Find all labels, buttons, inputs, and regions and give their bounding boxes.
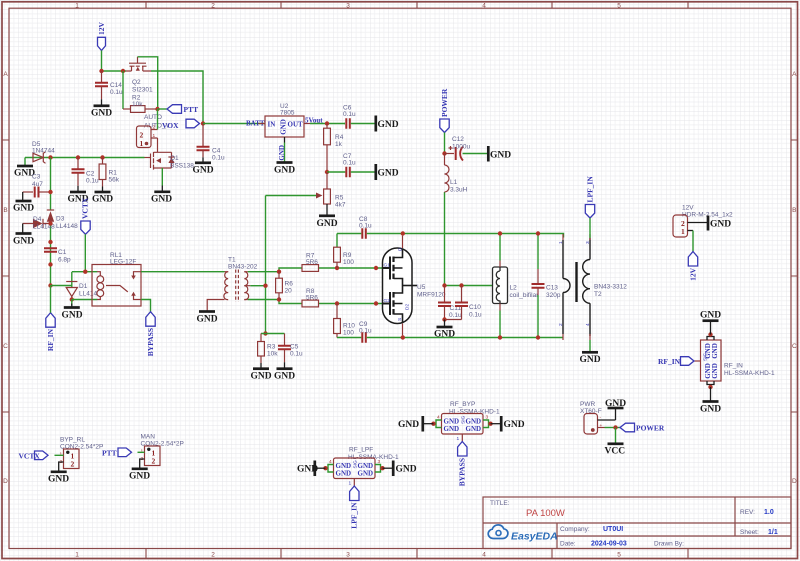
- svg-text:5R6: 5R6: [306, 259, 318, 266]
- ground under C11/C10: [434, 320, 455, 340]
- svg-text:RF_BYP: RF_BYP: [450, 401, 475, 408]
- svg-text:GND: GND: [317, 219, 338, 229]
- ground right of RF_BYP (rotated): [491, 416, 525, 432]
- U2 GND pin lead: [278, 137, 286, 162]
- junction G1 pin: [374, 266, 378, 270]
- svg-text:D1: D1: [79, 283, 88, 290]
- svg-text:GND: GND: [444, 425, 460, 433]
- IC U2 7805 regulator: [259, 103, 311, 137]
- connector RF_BYP HL-SSMA-KHD-1: [436, 401, 500, 442]
- svg-text:B: B: [792, 207, 796, 214]
- svg-text:0.1u: 0.1u: [449, 312, 462, 319]
- svg-text:GND: GND: [274, 166, 295, 176]
- inductor L1 3.3uH: [445, 154, 468, 194]
- potentiometer R5 4k7: [266, 172, 346, 209]
- ground right of C6 (rotated): [376, 116, 399, 132]
- svg-text:REV:: REV:: [740, 509, 755, 516]
- svg-text:MAN: MAN: [141, 434, 156, 441]
- transistor Q1 BSS138 (N-MOSFET): [145, 152, 195, 170]
- wire G1 row: [302, 267, 382, 269]
- svg-text:GND: GND: [580, 355, 601, 365]
- connector MAN CON2-2.54*2P: [138, 434, 184, 469]
- wire VCTX to coil top: [72, 234, 98, 271]
- ground right of C7 (rotated): [376, 164, 399, 180]
- svg-text:1: 1: [75, 3, 79, 10]
- wire drain bus (top): [403, 234, 564, 238]
- svg-text:Drawn By:: Drawn By:: [654, 541, 684, 548]
- svg-text:7805: 7805: [280, 110, 295, 117]
- svg-text:TITLE:: TITLE:: [490, 500, 510, 507]
- svg-text:4u7: 4u7: [32, 181, 43, 188]
- svg-text:GND: GND: [396, 465, 417, 475]
- svg-text:320p: 320p: [546, 292, 561, 299]
- svg-text:G1: G1: [384, 263, 391, 269]
- svg-text:SIG: SIG: [353, 460, 359, 469]
- svg-text:GND: GND: [466, 425, 482, 433]
- svg-text:12V: 12V: [682, 205, 694, 212]
- ground below SMA: [700, 387, 721, 415]
- svg-text:1N4744: 1N4744: [32, 148, 55, 155]
- svg-text:LL414: LL414: [79, 291, 97, 298]
- wire POWER flag to C12 junction: [444, 133, 446, 154]
- junction trunk mid: [48, 240, 52, 244]
- svg-text:0.1u: 0.1u: [343, 160, 356, 167]
- net flag VCTX (mid-left, points down): [81, 197, 91, 234]
- svg-text:GND: GND: [711, 343, 719, 359]
- wire junction to header pin 2: [157, 109, 159, 130]
- svg-text:GND: GND: [13, 204, 34, 214]
- capacitor C5 0.1u: [278, 334, 303, 363]
- connector PWR XT60-F: [580, 401, 620, 434]
- svg-text:3: 3: [585, 241, 591, 244]
- ground left of C3: [13, 192, 34, 214]
- ground under MAN: [129, 469, 150, 482]
- svg-text:C14: C14: [110, 82, 122, 89]
- junction RF_LPF left: [323, 466, 327, 470]
- svg-text:12V: 12V: [688, 267, 697, 281]
- svg-text:1: 1: [153, 133, 156, 139]
- svg-text:Q1: Q1: [170, 155, 179, 162]
- svg-text:GND: GND: [700, 405, 721, 415]
- capacitor C2: [72, 158, 100, 186]
- transformer T1 BN43-202: [207, 257, 257, 311]
- svg-text:GND: GND: [251, 372, 272, 382]
- ground under C2: [68, 186, 89, 205]
- svg-text:6.8p: 6.8p: [58, 257, 71, 264]
- junction VCTX/coil: [83, 270, 87, 274]
- svg-text:Sheet:: Sheet:: [740, 529, 759, 536]
- svg-text:GND: GND: [358, 470, 374, 478]
- resistor R8 5R6: [302, 288, 319, 307]
- transformer T2 BN43-3312: [558, 234, 627, 340]
- svg-text:PTT: PTT: [102, 449, 117, 458]
- svg-text:VCTX: VCTX: [81, 197, 90, 219]
- junction C2: [76, 155, 80, 159]
- capacitor C14: [95, 71, 123, 99]
- junction D1 bottom: [70, 297, 74, 301]
- svg-text:BYPASS: BYPASS: [458, 458, 467, 486]
- svg-text:HL-SSMA-KHD-1: HL-SSMA-KHD-1: [449, 409, 500, 416]
- svg-text:0.1u: 0.1u: [343, 111, 356, 118]
- svg-text:T1: T1: [228, 257, 236, 264]
- svg-text:GND: GND: [48, 475, 69, 485]
- ground under T2: [580, 352, 601, 365]
- svg-text:Date:: Date:: [560, 541, 576, 548]
- wire L2 bottom to source bus: [499, 304, 501, 311]
- capacitor C13 320p: [532, 234, 561, 338]
- junction C12: [442, 151, 446, 155]
- svg-text:GND: GND: [700, 311, 721, 321]
- svg-text:PWR: PWR: [580, 401, 595, 408]
- title block: [483, 497, 791, 549]
- svg-text:R3: R3: [267, 344, 276, 351]
- svg-text:GND: GND: [129, 472, 150, 482]
- net flag POWER (points left): [620, 423, 665, 432]
- svg-text:AUTO: AUTO: [144, 114, 162, 121]
- svg-text:4: 4: [329, 459, 332, 465]
- svg-text:2: 2: [211, 552, 215, 559]
- inductor L2 coil_bifilar: [493, 267, 540, 304]
- resistor R9 100: [334, 234, 355, 269]
- ground right of HDR pin2 (rotated): [708, 216, 731, 231]
- junction D4/trunk: [48, 221, 52, 225]
- junction R2/PTT/gate: [155, 107, 159, 111]
- svg-text:GND: GND: [193, 166, 214, 176]
- net flag BYPASS (under relay, points up): [146, 312, 155, 357]
- svg-text:4k7: 4k7: [335, 202, 346, 209]
- ground under BYP_RL: [48, 472, 69, 485]
- net flag LPF_IN (above T2, points down): [585, 176, 594, 218]
- wire L2 top to drain bus: [499, 234, 501, 261]
- svg-text:BSS138: BSS138: [170, 163, 194, 170]
- svg-text:3.3uH: 3.3uH: [450, 187, 468, 194]
- capacitor C9 0.1u (feedback bottom): [337, 321, 403, 343]
- ground under R1: [92, 187, 113, 205]
- junction rail/C11: [442, 283, 446, 287]
- svg-text:4: 4: [482, 3, 486, 10]
- svg-text:1: 1: [457, 436, 460, 442]
- wire HDR pin1 to 12V flag: [692, 231, 694, 252]
- wire T1 center tap to bias rail: [250, 285, 265, 287]
- wire coil bottom row: [72, 299, 98, 301]
- ground right of RF_LPF (rotated): [383, 461, 417, 477]
- resistor R3 10k: [258, 334, 279, 364]
- wire Q2 drain to C4 corner: [151, 71, 203, 124]
- junction RF_BYP right: [488, 422, 492, 426]
- relay RL1 LEG-12F: [92, 252, 141, 306]
- diode D1 LL4148 (vertical flyback): [66, 272, 97, 300]
- svg-text:GND: GND: [710, 220, 731, 230]
- svg-text:C4: C4: [212, 148, 221, 155]
- svg-text:0.1u: 0.1u: [212, 155, 225, 162]
- svg-text:GND: GND: [434, 330, 455, 340]
- net flag VOX (points right): [186, 119, 200, 128]
- svg-text:C13: C13: [546, 285, 558, 292]
- ground under U2: [274, 163, 295, 176]
- svg-text:5: 5: [617, 552, 621, 559]
- svg-text:GND: GND: [398, 420, 419, 430]
- svg-text:HL-SSMA-KHD-1: HL-SSMA-KHD-1: [724, 370, 775, 377]
- wire Q1 source to ground: [161, 168, 163, 186]
- junction RF_LPF right: [380, 466, 384, 470]
- junction L2 bottom: [498, 335, 502, 339]
- capacitor C4: [197, 124, 226, 162]
- capacitor C3 4u7 (horizontal): [23, 174, 51, 198]
- net flag RF_IN (points right into SMA): [658, 357, 694, 366]
- wire 12V rail to Q2: [102, 70, 127, 72]
- svg-text:coil_bifilar: coil_bifilar: [510, 292, 540, 299]
- svg-text:R4: R4: [335, 134, 344, 141]
- ground above SMA (inverted): [700, 311, 721, 335]
- svg-text:0.1u: 0.1u: [469, 312, 482, 319]
- svg-text:BYP_RL: BYP_RL: [60, 437, 85, 444]
- svg-text:4: 4: [437, 415, 440, 421]
- capacitor C12 1000u (polarized): [445, 136, 488, 161]
- junction sec top: [277, 270, 281, 274]
- diode D4 LL4148 (horizontal): [23, 216, 55, 231]
- svg-text:C: C: [3, 343, 8, 350]
- svg-text:GND: GND: [274, 372, 295, 382]
- svg-text:D2: D2: [405, 304, 411, 310]
- svg-text:PA 100W: PA 100W: [526, 508, 565, 519]
- diode D3 LL4148 (vertical, on trunk): [47, 210, 78, 230]
- junction AUTO_VOX / BATT: [201, 121, 205, 125]
- svg-text:PTT: PTT: [184, 105, 199, 114]
- svg-text:D3: D3: [56, 216, 65, 223]
- EasyEDA logo: [488, 525, 558, 543]
- svg-text:1k: 1k: [335, 141, 343, 148]
- svg-text:R5: R5: [335, 195, 344, 202]
- net flag PTT (points left): [167, 105, 198, 114]
- transistor Q2 SI2301 (P-MOSFET, horizontal): [126, 57, 153, 94]
- ground under R5: [317, 204, 338, 229]
- svg-text:GND: GND: [92, 195, 113, 205]
- svg-text:12V: 12V: [97, 22, 106, 36]
- svg-text:0.1u: 0.1u: [359, 328, 372, 335]
- svg-text:LPF_IN: LPF_IN: [585, 176, 594, 203]
- capacitor C7: [327, 153, 375, 177]
- ground left of RF_LPF (rotated): [297, 461, 326, 477]
- svg-text:GND: GND: [151, 195, 172, 205]
- svg-text:D: D: [792, 478, 797, 485]
- svg-text:1: 1: [558, 241, 564, 244]
- junction trunk below C1: [48, 262, 52, 266]
- connector RF_IN HL-SSMA-KHD-1 (right, vertical): [694, 337, 775, 385]
- junction C13 top: [536, 231, 540, 235]
- wire trunk vertical: [50, 158, 52, 286]
- wire relay NC contact to BYPASS flag: [141, 300, 151, 313]
- svg-text:10k: 10k: [132, 101, 143, 108]
- ground right of C12 (rotated): [488, 146, 511, 162]
- svg-text:3: 3: [378, 459, 381, 465]
- svg-text:BN43-202: BN43-202: [228, 264, 258, 271]
- svg-text:RF_IN: RF_IN: [658, 357, 681, 366]
- wire coil bottom to GND: [71, 300, 73, 306]
- svg-text:GND: GND: [378, 120, 399, 130]
- resistor R2 10k: [123, 71, 158, 112]
- ground under C4: [193, 157, 214, 175]
- svg-text:GND: GND: [297, 465, 318, 475]
- svg-text:1: 1: [141, 449, 144, 455]
- svg-text:R9: R9: [343, 252, 352, 259]
- ground under C14: [91, 99, 112, 118]
- junction 12V/C14: [99, 69, 103, 73]
- ground under Q1: [151, 186, 172, 205]
- svg-text:1: 1: [60, 452, 63, 458]
- svg-text:R6: R6: [285, 281, 294, 288]
- wire T1 sec bottom to R6/R8: [248, 300, 302, 304]
- svg-text:4: 4: [482, 552, 486, 559]
- junction R7/R9: [335, 266, 339, 270]
- wire G2 row: [319, 303, 383, 305]
- net flag RF_IN (left, points up): [46, 313, 55, 351]
- svg-text:EasyEDA: EasyEDA: [511, 531, 558, 543]
- svg-text:3: 3: [346, 552, 350, 559]
- resistor R6 20: [276, 272, 294, 300]
- junction R4/C7/R5: [325, 170, 329, 174]
- resistor R4 1k: [324, 124, 344, 173]
- svg-text:SI2301: SI2301: [132, 87, 153, 94]
- svg-text:C1: C1: [58, 249, 67, 256]
- wire source bus (bottom): [403, 337, 563, 339]
- svg-text:R10: R10: [343, 323, 355, 330]
- net flag BYPASS (under RF_BYP, points up): [458, 442, 467, 487]
- svg-text:2: 2: [71, 460, 75, 469]
- svg-text:S: S: [397, 318, 403, 321]
- net flag PTT (points right): [102, 448, 132, 458]
- svg-text:POWER: POWER: [440, 88, 449, 117]
- svg-text:GND: GND: [13, 237, 34, 247]
- svg-text:5: 5: [617, 3, 621, 10]
- junction trunk / D1 wire: [48, 283, 52, 287]
- svg-text:100: 100: [343, 330, 354, 337]
- junction R1: [100, 155, 104, 159]
- connector BYP_RL CON2-2.54*2P: [55, 437, 104, 472]
- svg-text:VCTX: VCTX: [19, 452, 41, 461]
- svg-text:POWER: POWER: [636, 424, 665, 433]
- svg-text:R1: R1: [109, 170, 118, 177]
- svg-text:IN: IN: [268, 121, 276, 129]
- capacitor C8 0.1u (feedback top): [337, 216, 403, 239]
- svg-text:LEG-12F: LEG-12F: [110, 259, 136, 266]
- svg-text:56k: 56k: [109, 177, 120, 184]
- svg-text:GND: GND: [62, 311, 83, 321]
- svg-text:LL4148: LL4148: [56, 223, 78, 230]
- wire bias rail vertical (R5 wiper to R3/C5): [265, 196, 267, 334]
- wire rail tee to L2: [445, 285, 493, 287]
- capacitor C11 0.1u: [438, 286, 462, 320]
- wire trunk to RF_IN flag: [50, 286, 52, 313]
- svg-text:GND: GND: [278, 145, 286, 161]
- wire D1 anode tap: [51, 285, 72, 287]
- svg-text:C3: C3: [32, 174, 41, 181]
- svg-text:2: 2: [211, 3, 215, 10]
- wire T2 pin4 to ground: [589, 340, 591, 352]
- ground under C5: [274, 362, 295, 381]
- ground above PWR (inverted): [605, 399, 626, 420]
- junction U2 out: [325, 121, 329, 125]
- junction PWR+: [613, 425, 617, 429]
- connector header AUTO (2-pin): [137, 125, 158, 149]
- junction rail/C10: [459, 283, 463, 287]
- svg-text:BYPASS: BYPASS: [146, 328, 155, 356]
- junction R8/R10: [335, 301, 339, 305]
- wire relay NO contact to T1: [141, 271, 225, 273]
- svg-text:GND: GND: [605, 399, 626, 409]
- svg-text:1: 1: [681, 227, 685, 236]
- wire 12V flag to rail: [101, 51, 103, 72]
- svg-text:100: 100: [343, 259, 354, 266]
- wire R3/C5 tee: [261, 333, 285, 335]
- svg-text:Company:: Company:: [560, 526, 590, 533]
- svg-text:GND: GND: [91, 109, 112, 119]
- junction center tap: [263, 284, 267, 288]
- net flag LPF_IN (under RF_LPF, points up): [350, 486, 359, 529]
- junction C11/C10 gnd tie: [442, 317, 446, 321]
- wire junction to PTT flag: [158, 108, 168, 110]
- connector P1 12V HDR-M-2.54_1x2: [673, 205, 733, 238]
- junction SMA bottom gnd: [708, 385, 712, 389]
- junction C13 bottom: [536, 335, 540, 339]
- svg-text:GND: GND: [336, 470, 352, 478]
- svg-text:GND: GND: [280, 119, 288, 135]
- junction R2 pullup: [121, 69, 125, 73]
- svg-text:A: A: [3, 71, 8, 78]
- svg-text:L2: L2: [510, 285, 518, 292]
- svg-text:C10: C10: [469, 304, 481, 311]
- VCC rail under PWR: [605, 428, 626, 457]
- resistor R1 56k: [99, 158, 120, 187]
- net flag 12V (right, points up): [688, 252, 697, 281]
- svg-text:RF_IN: RF_IN: [46, 328, 55, 351]
- junction G2 pin: [374, 301, 378, 305]
- wire header pin1 to Q1 drain: [157, 138, 159, 152]
- svg-text:VOX: VOX: [162, 121, 179, 130]
- junction SMA top gnd: [708, 332, 712, 336]
- junction C3/trunk: [48, 190, 52, 194]
- svg-text:C: C: [792, 343, 797, 350]
- junction U5 source: [401, 335, 405, 339]
- svg-text:GND: GND: [197, 315, 218, 325]
- ground left of D4: [13, 224, 34, 247]
- ground under T1 primary: [197, 312, 218, 325]
- svg-text:RF_LPF: RF_LPF: [349, 447, 373, 454]
- svg-text:D4: D4: [33, 216, 42, 223]
- svg-text:10k: 10k: [267, 351, 278, 358]
- svg-text:GND: GND: [711, 363, 719, 379]
- svg-text:GND: GND: [504, 420, 525, 430]
- svg-text:C2: C2: [86, 171, 95, 178]
- net flag 12V (top left): [97, 22, 106, 51]
- svg-text:D: D: [3, 478, 8, 485]
- resistor R10 100: [334, 304, 356, 338]
- svg-text:1.0: 1.0: [764, 509, 774, 516]
- diode D5 1N4744 (zener): [32, 141, 55, 163]
- junction RF_BYP left: [431, 422, 435, 426]
- wire U2 OUT to C6 junction: [310, 123, 345, 125]
- svg-text:1: 1: [349, 481, 352, 487]
- svg-text:GND: GND: [378, 169, 399, 179]
- wire BATT: AUTO_VOX junction to U2 IN: [203, 123, 265, 125]
- connector RF_LPF HL-SSMA-KHD-1: [328, 447, 399, 487]
- svg-text:1000u: 1000u: [452, 144, 470, 151]
- net flag POWER (top, points down): [440, 88, 449, 132]
- svg-text:0.1u: 0.1u: [290, 351, 303, 358]
- svg-text:MRF9120: MRF9120: [417, 292, 446, 299]
- svg-text:LPF_IN: LPF_IN: [350, 502, 359, 529]
- svg-text:3: 3: [486, 415, 489, 421]
- svg-text:T2: T2: [594, 291, 602, 298]
